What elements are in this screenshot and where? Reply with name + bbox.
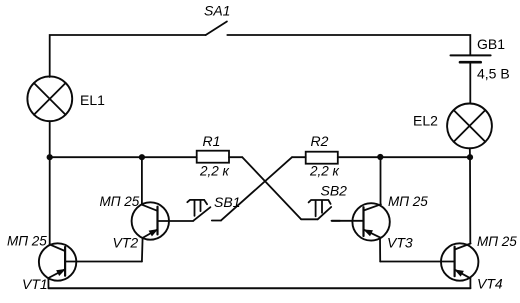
svg-text:МП 25: МП 25	[100, 194, 140, 209]
wire left rail node A to R1	[50, 156, 197, 158]
node B junction dot	[139, 154, 145, 160]
svg-text:4,5 В: 4,5 В	[477, 65, 510, 81]
wire right rail R2 to node D	[338, 156, 471, 158]
wire EL2 bottom to node D and down to VT4 collector	[469, 148, 472, 243]
wire diagonal from SB1 up to R2	[221, 157, 292, 220]
resistor R1	[197, 151, 229, 163]
svg-text:МП 25: МП 25	[388, 194, 428, 209]
svg-text:2,2 к: 2,2 к	[199, 164, 230, 179]
transistor VT2	[132, 202, 194, 261]
wire R2 left stub	[292, 156, 306, 158]
svg-text:EL1: EL1	[80, 92, 105, 108]
svg-text:EL2: EL2	[413, 113, 438, 129]
svg-text:МП 25: МП 25	[7, 234, 47, 249]
wire GB1 to lamp EL2	[469, 63, 471, 103]
wire EL1 bottom to node A	[49, 121, 51, 157]
wire diagonal from R1 down to SB2	[242, 157, 301, 219]
bottom ground rail	[49, 287, 471, 289]
svg-text:GB1: GB1	[477, 36, 505, 52]
transistor VT1	[39, 243, 142, 288]
svg-text:SB2: SB2	[321, 183, 348, 199]
svg-text:2,2 к: 2,2 к	[309, 164, 340, 179]
svg-text:VT4: VT4	[477, 276, 503, 292]
push button SB2	[301, 200, 340, 221]
svg-text:SA1: SA1	[204, 3, 230, 19]
wire node C down to VT3 collector	[380, 157, 382, 204]
battery GB1 short negative plate	[460, 61, 481, 64]
battery GB1 long positive plate	[451, 54, 491, 56]
wire from EL1 top up-left corner to switch SA1	[50, 35, 206, 77]
node D junction dot	[467, 154, 473, 160]
wire R1 right stub	[229, 156, 242, 158]
svg-text:R1: R1	[203, 133, 221, 149]
wire node B down to VT2 collector	[141, 157, 143, 205]
svg-text:VT2: VT2	[113, 235, 139, 251]
resistor R2	[306, 152, 338, 164]
wire node A down to VT1 collector	[49, 157, 51, 244]
node A junction dot	[47, 154, 53, 160]
svg-text:МП 25: МП 25	[477, 234, 517, 249]
svg-text:R2: R2	[311, 133, 329, 149]
svg-text:VT3: VT3	[387, 235, 413, 251]
transistor VT3	[332, 203, 390, 261]
node C junction dot	[377, 154, 383, 160]
lamp EL2	[447, 104, 492, 149]
wire SA1 right to battery GB1	[227, 35, 470, 54]
lamp EL1	[27, 76, 72, 121]
push button SB1	[187, 200, 221, 221]
svg-text:VT1: VT1	[22, 276, 48, 292]
transistor VT4	[441, 243, 478, 288]
switch SA1 blade	[206, 22, 227, 36]
svg-text:SB1: SB1	[214, 194, 240, 210]
wire VT3 emitter down and right to VT4 base	[380, 261, 454, 263]
